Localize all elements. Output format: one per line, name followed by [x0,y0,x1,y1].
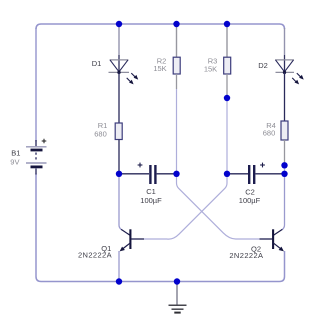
wire R3 bottom stub [226,74,228,98]
transistor Q1 [120,229,144,251]
wire D1 cathode to R1 [118,72,120,123]
svg-text:9V: 9V [10,158,19,167]
wire node D down to Q2 collector [282,174,285,230]
junction Q1 emitter / ground rail [116,278,122,284]
resistor R2 [173,57,180,74]
svg-text:2N2222A: 2N2222A [229,251,263,260]
svg-text:100µF: 100µF [239,196,261,205]
junction node B [173,171,179,177]
junction node A [116,171,122,177]
junction ground rail / ground symbol [174,278,180,284]
svg-text:D1: D1 [92,59,102,68]
wire battery positive lead (left rail upper) [35,28,37,142]
svg-text:680: 680 [94,130,107,139]
svg-text:B1: B1 [11,149,20,158]
svg-text:D2: D2 [258,61,268,70]
wire D2 cathode to R4 [284,72,286,121]
junction R4 lead joint [281,162,287,168]
wire R2 bottom stub [176,74,178,89]
wire coupling node B to Q2 base (crossover) [177,174,274,239]
junction top rail / R2 branch [173,21,179,27]
junction top rail / R3 branch [224,21,230,27]
wire R4 bottom stub [284,140,286,165]
resistor R1 [115,123,122,140]
junction top rail / D1 branch [116,21,122,27]
junction node C [224,171,230,177]
capacitor C2 [249,163,265,184]
wire node C to C2 left plate [227,173,248,175]
ground symbol [169,282,187,313]
junction node D [281,171,287,177]
junction R3 lead joint [224,95,230,101]
wire R4 to node D (Q2 collector net) [284,165,286,174]
svg-text:100µF: 100µF [140,196,162,205]
wire R2 to node B [176,89,178,174]
capacitor C1 [138,163,156,184]
LED D1 [109,55,139,84]
svg-text:2N2222A: 2N2222A [78,250,112,259]
transistor Q2 [260,229,284,251]
resistor R4 [281,121,288,140]
LED D2 [275,55,304,84]
svg-text:15K: 15K [204,65,217,74]
wire +V top rail [36,24,285,29]
wire D1 top lead [118,24,120,55]
wire C1 right plate to node B [157,173,177,175]
wire R2 top lead [176,24,178,58]
svg-text:C1: C1 [146,187,156,196]
wire node A down to Q1 collector [119,174,122,230]
wire R3 to node C [226,98,228,174]
wire Q1 emitter to ground rail [118,251,120,282]
resistor R3 [224,57,231,74]
wire node A to C1 left plate [119,173,149,175]
svg-text:15K: 15K [153,64,166,73]
svg-text:680: 680 [263,129,276,138]
wire R1 to node A (Q1 collector net) [118,140,120,174]
wire C2 right plate to node D [255,173,284,175]
wire R3 top lead [226,24,228,58]
wire D2 top lead [284,28,286,55]
wire coupling node C to Q1 base (crossover) [131,174,227,239]
battery B1 [26,139,47,175]
wire ground rail (bottom + left lower + right lower) [36,174,285,282]
